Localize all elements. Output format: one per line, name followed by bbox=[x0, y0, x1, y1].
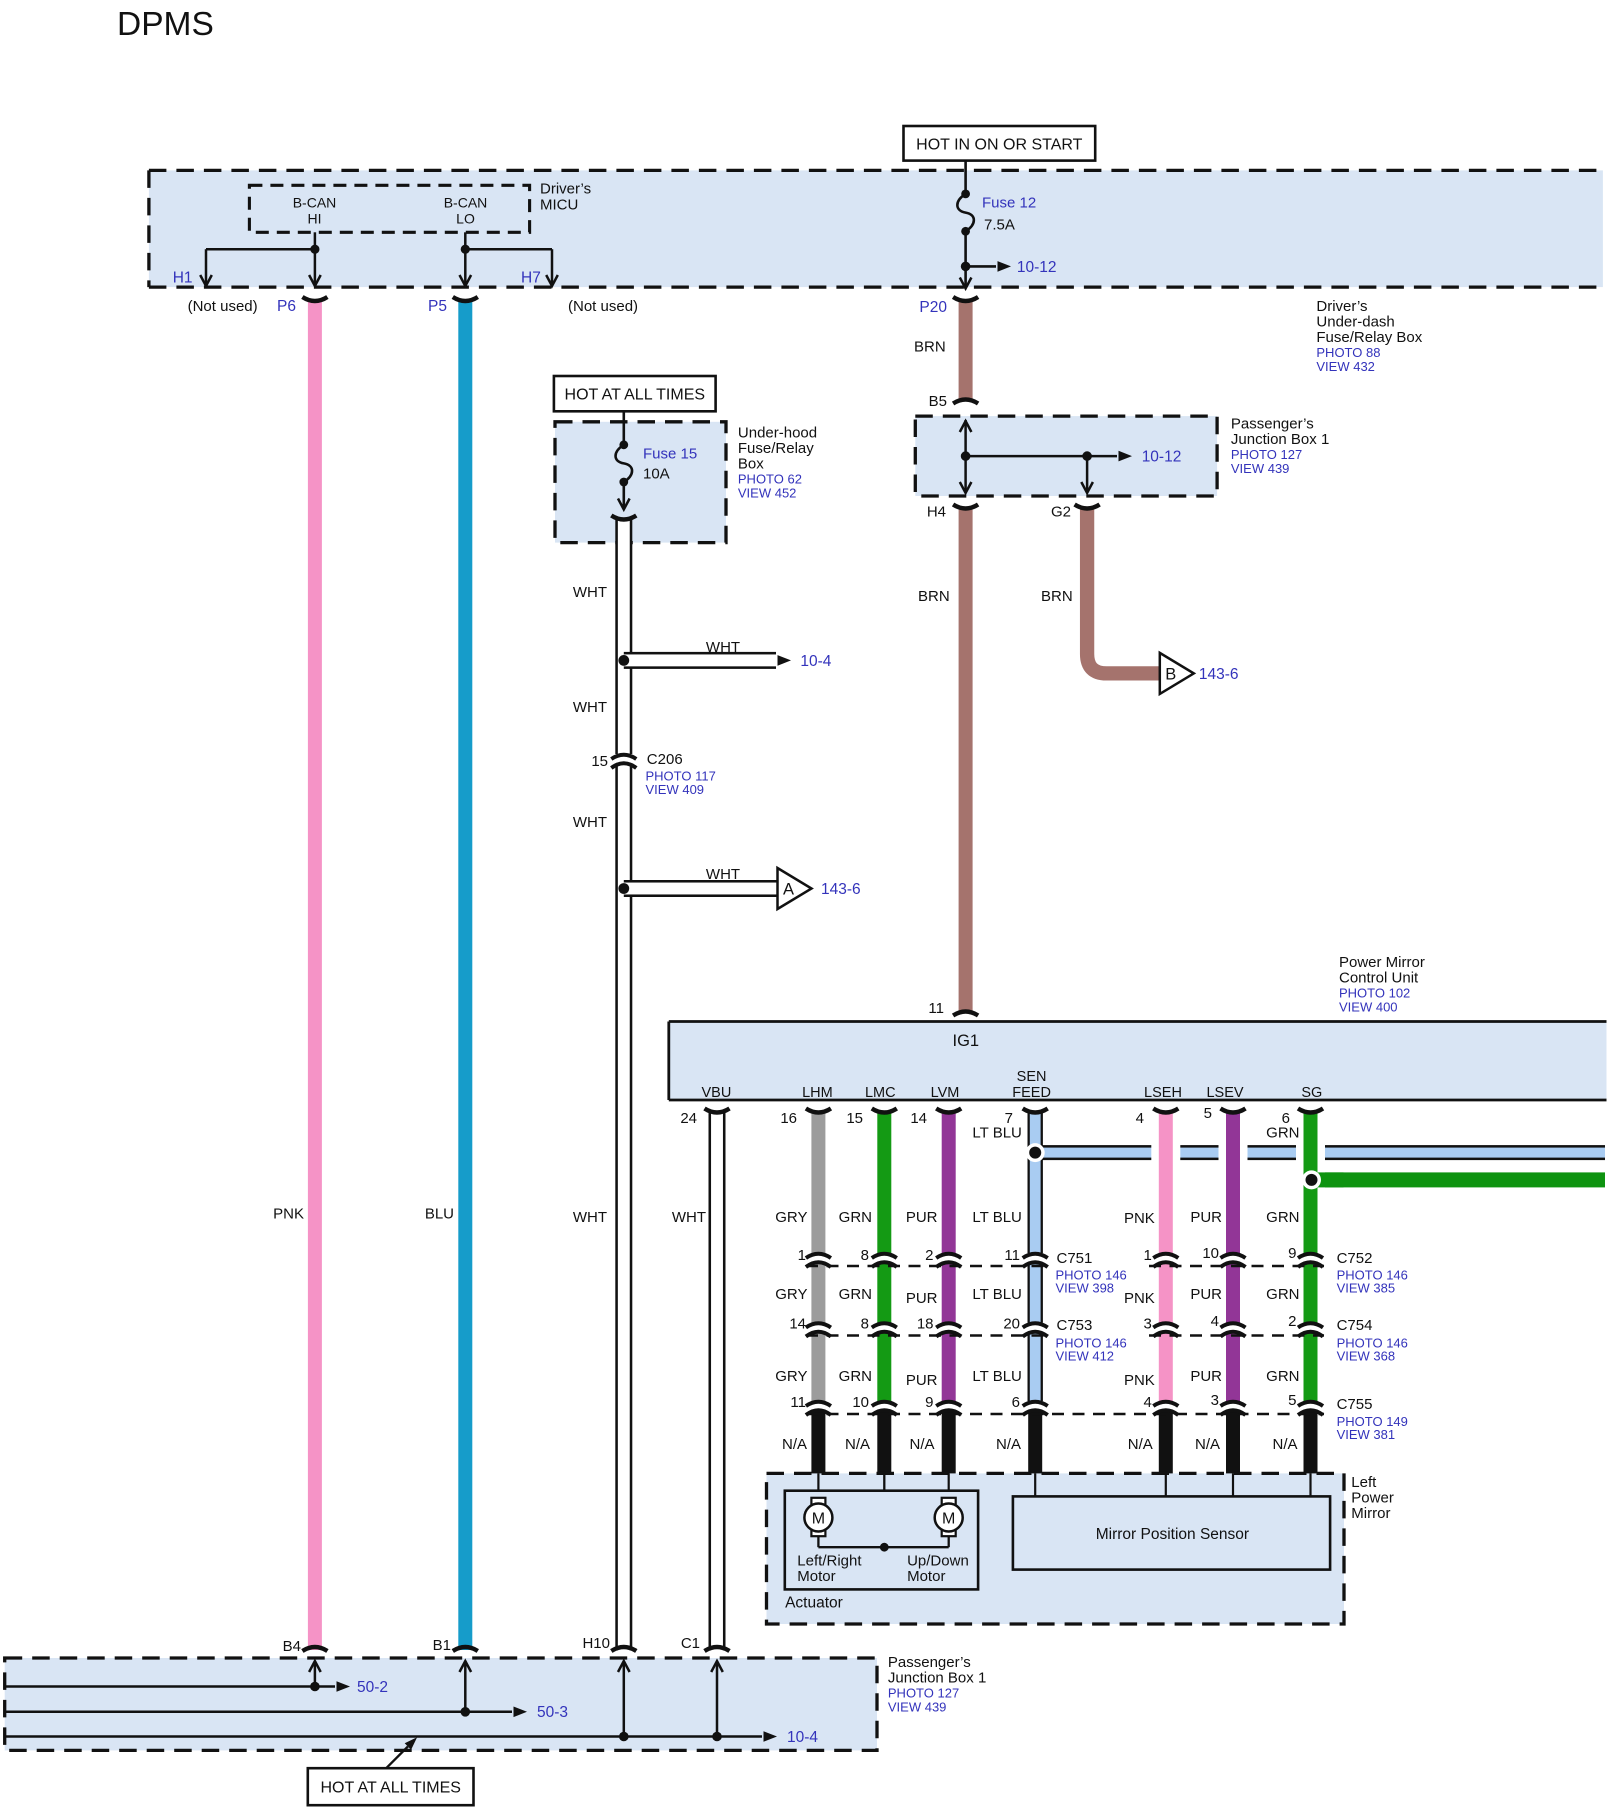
connector row dashes C752 bbox=[1149, 1265, 1324, 1267]
box Passenger's Junction Box 1 (middle) bbox=[915, 416, 1217, 496]
svg-text:143-6: 143-6 bbox=[1199, 666, 1239, 683]
svg-text:PUR: PUR bbox=[906, 1290, 938, 1307]
svg-text:LSEV: LSEV bbox=[1206, 1085, 1243, 1101]
svg-text:BRN: BRN bbox=[918, 588, 950, 605]
svg-text:WHT: WHT bbox=[672, 1209, 706, 1226]
wire branch to 10-12 middle bbox=[966, 455, 1117, 458]
wire BRN P20-B5 bbox=[959, 299, 973, 400]
svg-text:Passenger’s: Passenger’s bbox=[888, 1654, 971, 1671]
svg-text:Passenger’s: Passenger’s bbox=[1231, 416, 1314, 433]
wire hot feed to fuse 15 bbox=[622, 411, 625, 445]
svg-text:2: 2 bbox=[1288, 1313, 1296, 1330]
junction C1 bbox=[712, 1732, 722, 1742]
svg-text:Under-hood: Under-hood bbox=[738, 425, 817, 442]
svg-text:LVM: LVM bbox=[931, 1085, 960, 1101]
wire GRN SG bbox=[1296, 1112, 1325, 1253]
svg-text:M: M bbox=[812, 1511, 825, 1528]
svg-text:PUR: PUR bbox=[906, 1372, 938, 1389]
junction fuse12 branch bbox=[961, 262, 971, 272]
wire to motor common bbox=[883, 1473, 885, 1547]
svg-text:PHOTO 88: PHOTO 88 bbox=[1316, 345, 1380, 360]
junction H10 bbox=[619, 1732, 629, 1742]
wire H7 drop (not used) bbox=[551, 249, 554, 285]
connector caps at PMCU pins bbox=[806, 1109, 831, 1113]
arrow callout to 10-4 line bbox=[387, 1747, 408, 1768]
svg-text:HI: HI bbox=[308, 211, 322, 227]
connector row dashes C753 bbox=[806, 1334, 1048, 1336]
svg-text:PNK: PNK bbox=[273, 1206, 304, 1223]
svg-text:Fuse/Relay: Fuse/Relay bbox=[738, 440, 814, 457]
svg-text:PUR: PUR bbox=[1190, 1286, 1222, 1303]
box Power Mirror Control Unit bbox=[669, 1022, 1607, 1101]
wire 50-2 line bbox=[5, 1685, 335, 1688]
svg-text:LT BLU: LT BLU bbox=[972, 1209, 1021, 1226]
svg-text:VIEW 452: VIEW 452 bbox=[738, 486, 797, 501]
svg-text:11: 11 bbox=[928, 1000, 944, 1017]
svg-text:(Not used): (Not used) bbox=[568, 298, 638, 315]
svg-text:P6: P6 bbox=[277, 298, 296, 315]
svg-text:VBU: VBU bbox=[701, 1085, 731, 1101]
svg-text:C752: C752 bbox=[1337, 1250, 1373, 1267]
wire black stubs to mirror bbox=[811, 1412, 825, 1475]
connector C751/C752 at SG bbox=[1298, 1254, 1323, 1258]
wire B-CAN HI stub bbox=[314, 232, 317, 249]
svg-text:Motor: Motor bbox=[907, 1568, 945, 1585]
svg-text:PNK: PNK bbox=[1124, 1290, 1155, 1307]
svg-text:B5: B5 bbox=[929, 393, 947, 410]
connector C755 at SG bbox=[1298, 1402, 1323, 1406]
wire BRN G2 bend to B ref bbox=[1087, 507, 1160, 674]
arrow up B4 bbox=[314, 1661, 317, 1687]
svg-text:16: 16 bbox=[780, 1110, 797, 1127]
svg-text:C206: C206 bbox=[647, 751, 683, 768]
wire H1 drop (not used) bbox=[205, 249, 208, 285]
connector C755 at LSEV bbox=[1221, 1402, 1246, 1406]
junction SG bus bbox=[1302, 1170, 1321, 1189]
svg-text:SEN: SEN bbox=[1017, 1069, 1047, 1085]
svg-text:PHOTO 102: PHOTO 102 bbox=[1339, 986, 1410, 1001]
wire B5-H4 through box bbox=[964, 420, 967, 492]
junction B1 bbox=[461, 1707, 471, 1717]
svg-text:Junction Box 1: Junction Box 1 bbox=[1231, 431, 1329, 448]
svg-text:H4: H4 bbox=[927, 504, 946, 521]
wire VBU WHT vertical bbox=[709, 1112, 726, 1651]
svg-text:10-4: 10-4 bbox=[800, 653, 831, 670]
box Actuator bbox=[785, 1491, 978, 1590]
svg-text:Under-dash: Under-dash bbox=[1316, 314, 1394, 331]
svg-text:A: A bbox=[783, 881, 794, 899]
svg-text:10A: 10A bbox=[643, 466, 670, 483]
wire PUR LSEV bbox=[1219, 1112, 1248, 1253]
wire BRN H4 to PMCU pin 11 bbox=[959, 507, 973, 1014]
connector C755 at LMC bbox=[872, 1402, 897, 1406]
connector C753/C754 at LSEV bbox=[1221, 1323, 1246, 1327]
svg-text:Left/Right: Left/Right bbox=[797, 1553, 862, 1570]
svg-text:Fuse 12: Fuse 12 bbox=[982, 195, 1036, 212]
svg-text:FEED: FEED bbox=[1012, 1085, 1051, 1101]
svg-text:VIEW 439: VIEW 439 bbox=[1231, 461, 1290, 476]
wire 10-4 line bbox=[5, 1735, 762, 1738]
svg-text:P5: P5 bbox=[428, 298, 447, 315]
svg-text:10-4: 10-4 bbox=[787, 1729, 818, 1746]
wires to mirror position sensor bbox=[1034, 1473, 1036, 1498]
connector C755 at SEN bbox=[1023, 1402, 1048, 1406]
connector C751/C752 at LSEV bbox=[1221, 1254, 1246, 1258]
wire B-CAN HI horizontal to H1 bbox=[206, 248, 315, 251]
svg-text:4: 4 bbox=[1136, 1110, 1144, 1127]
svg-text:GRN: GRN bbox=[1266, 1368, 1299, 1385]
svg-text:WHT: WHT bbox=[573, 1209, 607, 1226]
connector cap H10 bbox=[611, 1647, 636, 1651]
svg-text:3: 3 bbox=[1143, 1316, 1151, 1333]
box Left Power Mirror (dashed) bbox=[767, 1473, 1345, 1624]
svg-text:5: 5 bbox=[1288, 1392, 1296, 1409]
svg-text:1: 1 bbox=[798, 1247, 806, 1264]
svg-text:LO: LO bbox=[456, 211, 475, 227]
svg-text:N/A: N/A bbox=[1272, 1436, 1297, 1453]
svg-text:HOT AT ALL TIMES: HOT AT ALL TIMES bbox=[565, 387, 706, 404]
connector C753/C754 at LVM bbox=[936, 1323, 961, 1327]
svg-text:N/A: N/A bbox=[909, 1436, 934, 1453]
connector cap B5 bbox=[953, 400, 978, 404]
svg-text:B-CAN: B-CAN bbox=[293, 195, 337, 211]
svg-text:Control Unit: Control Unit bbox=[1339, 970, 1419, 987]
svg-text:50-2: 50-2 bbox=[357, 1679, 388, 1696]
ref triangle B 143-6 bbox=[1160, 653, 1194, 694]
svg-text:B: B bbox=[1165, 665, 1176, 683]
svg-text:11: 11 bbox=[1004, 1247, 1020, 1264]
junction motor common bbox=[880, 1543, 889, 1552]
svg-text:10-12: 10-12 bbox=[1017, 259, 1057, 276]
svg-text:Power Mirror: Power Mirror bbox=[1339, 954, 1425, 971]
svg-text:G2: G2 bbox=[1051, 504, 1071, 521]
svg-text:WHT: WHT bbox=[706, 866, 740, 883]
svg-text:Mirror Position Sensor: Mirror Position Sensor bbox=[1096, 1526, 1249, 1543]
svg-text:BRN: BRN bbox=[914, 339, 946, 356]
svg-text:H7: H7 bbox=[521, 270, 541, 287]
svg-text:8: 8 bbox=[861, 1247, 869, 1264]
svg-text:PHOTO 62: PHOTO 62 bbox=[738, 472, 802, 487]
wire GRY LHM bbox=[804, 1112, 833, 1253]
svg-text:Fuse/Relay Box: Fuse/Relay Box bbox=[1316, 329, 1422, 346]
wire PNK LSEH bbox=[1151, 1112, 1180, 1253]
wire motor commons bbox=[817, 1536, 819, 1547]
svg-text:GRN: GRN bbox=[1266, 1125, 1299, 1142]
svg-text:WHT: WHT bbox=[573, 584, 607, 601]
svg-text:5: 5 bbox=[1204, 1105, 1212, 1122]
junction G2 branch bbox=[1082, 451, 1092, 461]
svg-text:VIEW 439: VIEW 439 bbox=[888, 1700, 947, 1715]
svg-text:Power: Power bbox=[1351, 1490, 1394, 1507]
svg-text:11: 11 bbox=[790, 1394, 806, 1411]
connector C753/C754 at SG bbox=[1298, 1323, 1323, 1327]
svg-text:GRN: GRN bbox=[839, 1286, 872, 1303]
ref triangle A 143-6 bbox=[778, 868, 812, 909]
svg-text:C753: C753 bbox=[1057, 1317, 1093, 1334]
svg-text:Left: Left bbox=[1351, 1474, 1377, 1491]
box HOT AT ALL TIMES bottom bbox=[308, 1768, 474, 1805]
svg-text:BRN: BRN bbox=[1041, 588, 1073, 605]
connector C753/C754 at LHM bbox=[806, 1323, 831, 1327]
wire fuse 15 down bbox=[622, 482, 625, 509]
svg-text:N/A: N/A bbox=[845, 1436, 870, 1453]
svg-text:LHM: LHM bbox=[802, 1085, 833, 1101]
svg-text:N/A: N/A bbox=[782, 1436, 807, 1453]
svg-text:PNK: PNK bbox=[1124, 1372, 1155, 1389]
wire WHT branch to A 143-6 bbox=[624, 880, 778, 897]
svg-text:Mirror: Mirror bbox=[1351, 1505, 1390, 1522]
svg-text:IG1: IG1 bbox=[953, 1032, 980, 1050]
svg-text:Junction Box 1: Junction Box 1 bbox=[888, 1670, 986, 1687]
wire to left/right motor bbox=[817, 1473, 819, 1498]
wire hot feed into MICU bbox=[964, 161, 967, 194]
svg-text:18: 18 bbox=[917, 1316, 934, 1333]
motor Up/Down M bbox=[942, 1498, 956, 1505]
junction B4 bbox=[310, 1682, 320, 1692]
svg-text:LSEH: LSEH bbox=[1144, 1085, 1182, 1101]
wire P5 drop bbox=[464, 249, 467, 285]
svg-text:14: 14 bbox=[910, 1110, 927, 1127]
connector C751/C752 at LVM bbox=[936, 1254, 961, 1258]
svg-text:VIEW 432: VIEW 432 bbox=[1316, 359, 1375, 374]
junction B-CAN LO bbox=[461, 245, 470, 254]
svg-text:Driver’s: Driver’s bbox=[540, 181, 591, 198]
svg-text:VIEW 409: VIEW 409 bbox=[646, 782, 705, 797]
wire PNK P6-B4 bbox=[308, 299, 322, 1650]
svg-text:Motor: Motor bbox=[797, 1568, 835, 1585]
svg-text:GRN: GRN bbox=[1266, 1209, 1299, 1226]
connector cap P20 bbox=[953, 297, 978, 301]
svg-text:PNK: PNK bbox=[1124, 1210, 1155, 1227]
svg-text:LT BLU: LT BLU bbox=[972, 1368, 1021, 1385]
motor Left/Right M bbox=[811, 1498, 825, 1505]
wire branch to 10-12 bbox=[966, 265, 996, 268]
svg-text:VIEW 385: VIEW 385 bbox=[1337, 1281, 1396, 1296]
svg-text:H1: H1 bbox=[173, 270, 193, 287]
wire 50-3 line bbox=[5, 1711, 512, 1714]
svg-text:6: 6 bbox=[1012, 1394, 1020, 1411]
svg-text:Box: Box bbox=[738, 456, 764, 473]
connector C751/C752 at LMC bbox=[872, 1254, 897, 1258]
fuse Fuse 12 bbox=[957, 194, 974, 231]
box Driver's MICU (fill) bbox=[149, 170, 1603, 287]
svg-text:C754: C754 bbox=[1337, 1317, 1373, 1334]
svg-text:N/A: N/A bbox=[996, 1436, 1021, 1453]
arrow up B1 bbox=[464, 1661, 467, 1712]
wire WHT branch to 10-4 bbox=[624, 652, 776, 669]
svg-text:LT BLU: LT BLU bbox=[972, 1125, 1021, 1142]
svg-text:DPMS: DPMS bbox=[117, 6, 214, 43]
connector row dashes C754 bbox=[1149, 1334, 1324, 1336]
svg-text:PHOTO 127: PHOTO 127 bbox=[888, 1686, 959, 1701]
svg-text:Fuse 15: Fuse 15 bbox=[643, 446, 697, 463]
junction SEN FEED bus bbox=[1026, 1143, 1045, 1162]
wire P6 drop bbox=[314, 249, 317, 285]
box Mirror Position Sensor bbox=[1013, 1496, 1330, 1569]
svg-text:P20: P20 bbox=[919, 299, 947, 316]
svg-text:15: 15 bbox=[591, 753, 608, 770]
svg-text:1: 1 bbox=[1143, 1247, 1151, 1264]
svg-text:WHT: WHT bbox=[706, 639, 740, 656]
connector C753/C754 at LMC bbox=[872, 1323, 897, 1327]
svg-text:143-6: 143-6 bbox=[821, 881, 861, 898]
svg-text:PUR: PUR bbox=[906, 1209, 938, 1226]
wire B-CAN LO stub bbox=[464, 232, 467, 249]
svg-text:10: 10 bbox=[852, 1394, 869, 1411]
box Under-hood Fuse/Relay Box bbox=[555, 422, 726, 543]
wire WHT fuse15 to H10 bbox=[615, 518, 632, 755]
wire G2 drop in box bbox=[1086, 456, 1089, 492]
svg-text:GRY: GRY bbox=[775, 1209, 807, 1226]
connector C755 at LVM bbox=[936, 1402, 961, 1406]
bus GRN horizontal bbox=[1311, 1172, 1606, 1187]
wire LT BLU SEN FEED bbox=[1028, 1112, 1043, 1253]
svg-text:15: 15 bbox=[846, 1110, 863, 1127]
svg-text:14: 14 bbox=[789, 1316, 806, 1333]
connector C751/C752 at LSEH bbox=[1153, 1254, 1178, 1258]
svg-text:50-3: 50-3 bbox=[537, 1704, 568, 1721]
svg-text:HOT IN ON OR START: HOT IN ON OR START bbox=[916, 137, 1082, 154]
connector C753/C754 at SEN bbox=[1023, 1323, 1048, 1327]
svg-text:7.5A: 7.5A bbox=[984, 217, 1015, 234]
fuse Fuse 15 bbox=[616, 445, 633, 482]
svg-text:VIEW 400: VIEW 400 bbox=[1339, 1000, 1398, 1015]
svg-text:Up/Down: Up/Down bbox=[907, 1553, 969, 1570]
bus GRN junction patch bbox=[1304, 1172, 1344, 1187]
connector row dashes C755 bbox=[806, 1413, 1324, 1415]
box B-CAN (dashed) bbox=[249, 185, 529, 232]
svg-text:GRN: GRN bbox=[839, 1368, 872, 1385]
connector C753/C754 at LSEH bbox=[1153, 1323, 1178, 1327]
bus LT BLU horizontal bbox=[1035, 1145, 1605, 1160]
svg-text:4: 4 bbox=[1143, 1394, 1151, 1411]
svg-text:B-CAN: B-CAN bbox=[444, 195, 488, 211]
svg-text:BLU: BLU bbox=[425, 1206, 454, 1223]
svg-text:HOT AT ALL TIMES: HOT AT ALL TIMES bbox=[320, 1780, 461, 1797]
connector C206 inline bbox=[611, 755, 636, 759]
svg-text:20: 20 bbox=[1003, 1316, 1020, 1333]
svg-text:VIEW 412: VIEW 412 bbox=[1056, 1349, 1115, 1364]
svg-text:SG: SG bbox=[1301, 1085, 1322, 1101]
connector C755 at LSEH bbox=[1153, 1402, 1178, 1406]
box HOT AT ALL TIMES upper bbox=[554, 376, 716, 411]
svg-text:C751: C751 bbox=[1057, 1250, 1093, 1267]
svg-text:WHT: WHT bbox=[573, 699, 607, 716]
svg-text:H10: H10 bbox=[582, 1635, 610, 1652]
svg-text:2: 2 bbox=[925, 1247, 933, 1264]
box Passenger's Junction Box 1 (bottom) bbox=[5, 1658, 877, 1750]
arrow up H10 bbox=[623, 1661, 626, 1737]
connector row dashes C751 bbox=[806, 1265, 1048, 1267]
svg-text:4: 4 bbox=[1211, 1313, 1219, 1330]
svg-text:PUR: PUR bbox=[1190, 1368, 1222, 1385]
svg-text:C1: C1 bbox=[681, 1635, 700, 1652]
svg-text:C755: C755 bbox=[1337, 1396, 1373, 1413]
svg-text:9: 9 bbox=[1288, 1245, 1296, 1262]
svg-text:GRN: GRN bbox=[1266, 1286, 1299, 1303]
connector C751/C752 at SEN bbox=[1023, 1254, 1048, 1258]
svg-text:PHOTO 127: PHOTO 127 bbox=[1231, 447, 1302, 462]
svg-text:LMC: LMC bbox=[865, 1085, 896, 1101]
svg-text:M: M bbox=[942, 1511, 955, 1528]
junction B-CAN HI bbox=[310, 245, 319, 254]
wire B-CAN LO horizontal to H7 bbox=[465, 248, 552, 251]
svg-text:PUR: PUR bbox=[1190, 1209, 1222, 1226]
svg-text:(Not used): (Not used) bbox=[188, 298, 258, 315]
svg-text:GRY: GRY bbox=[775, 1368, 807, 1385]
svg-text:10-12: 10-12 bbox=[1142, 449, 1182, 466]
wire fuse 12 down bbox=[964, 231, 967, 287]
svg-text:VIEW 398: VIEW 398 bbox=[1056, 1281, 1115, 1296]
svg-text:3: 3 bbox=[1211, 1392, 1219, 1409]
svg-text:B4: B4 bbox=[283, 1638, 301, 1655]
svg-text:MICU: MICU bbox=[540, 197, 578, 214]
wire PUR LVM bbox=[934, 1112, 963, 1253]
svg-text:GRY: GRY bbox=[775, 1286, 807, 1303]
svg-text:WHT: WHT bbox=[573, 814, 607, 831]
svg-text:N/A: N/A bbox=[1128, 1436, 1153, 1453]
box HOT IN ON OR START bbox=[904, 126, 1096, 161]
svg-text:B1: B1 bbox=[433, 1637, 451, 1654]
svg-text:9: 9 bbox=[925, 1394, 933, 1411]
arrow up C1 bbox=[716, 1661, 719, 1737]
svg-text:LT BLU: LT BLU bbox=[972, 1286, 1021, 1303]
connector C751/C752 at LHM bbox=[806, 1254, 831, 1258]
svg-text:24: 24 bbox=[680, 1110, 697, 1127]
wire to up/down motor bbox=[948, 1473, 950, 1498]
svg-text:Actuator: Actuator bbox=[785, 1595, 843, 1612]
svg-text:N/A: N/A bbox=[1195, 1436, 1220, 1453]
svg-text:GRN: GRN bbox=[839, 1209, 872, 1226]
svg-text:8: 8 bbox=[861, 1316, 869, 1333]
svg-text:Driver’s: Driver’s bbox=[1316, 298, 1367, 315]
svg-text:VIEW 368: VIEW 368 bbox=[1337, 1349, 1396, 1364]
junction B5 branch bbox=[961, 451, 971, 461]
box Driver's MICU (dashed border) bbox=[149, 169, 1603, 172]
connector C755 at LHM bbox=[806, 1402, 831, 1406]
svg-text:10: 10 bbox=[1202, 1245, 1219, 1262]
svg-text:VIEW 381: VIEW 381 bbox=[1337, 1427, 1396, 1442]
wire BLU P5-B1 bbox=[458, 299, 472, 1650]
wire GRN LMC bbox=[870, 1112, 899, 1253]
